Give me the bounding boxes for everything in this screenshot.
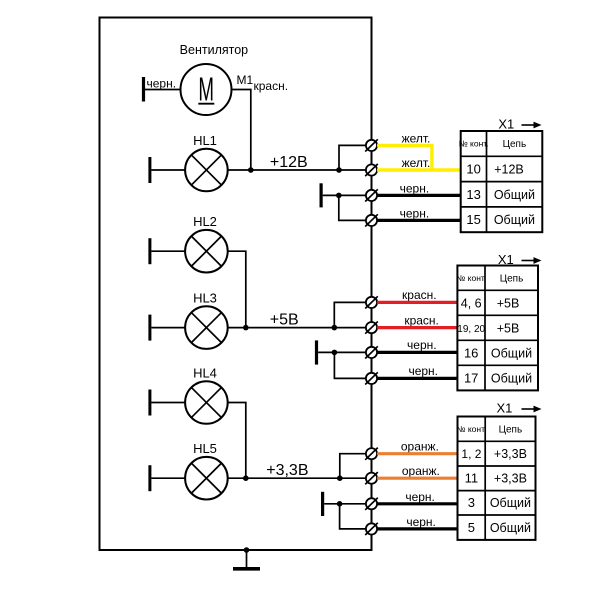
wire: HL3 left lead <box>151 327 185 329</box>
wire: ground stub <box>246 550 248 568</box>
lamp HL5 label <box>193 441 217 456</box>
svg-text:1, 2: 1, 2 <box>461 447 481 461</box>
svg-text:Цепь: Цепь <box>500 274 524 285</box>
wire: HL5 left lead <box>151 477 185 479</box>
wire: +5V branch up to pin <box>334 302 366 327</box>
wire label "красн." (to X1:19,20) <box>404 313 439 327</box>
connector X1 arrow (middle) <box>522 257 542 264</box>
wire: +3.3V branch up to pin <box>340 454 366 479</box>
junction: +5V branch <box>332 325 338 331</box>
svg-text:черн.: черн. <box>400 206 430 220</box>
red wire: pin to X1:19,20 <box>377 326 457 329</box>
svg-text:№ конт.: № конт. <box>459 139 489 149</box>
svg-text:черн.: черн. <box>147 77 177 91</box>
svg-text:+5В: +5В <box>270 312 299 329</box>
svg-text:Общий: Общий <box>491 346 532 360</box>
svg-text:оранж.: оранж. <box>401 440 439 454</box>
terminal bar HL3 <box>148 315 151 341</box>
connector X1 label (top) <box>498 116 514 131</box>
fan label "Вентилятор" <box>180 43 248 57</box>
terminal bar: top common lead <box>320 183 323 207</box>
connector pin circle (bottom group, to X1:1,2) <box>365 448 378 460</box>
connector X1 arrow (bottom) <box>522 406 542 413</box>
terminal bar: bottom common lead <box>321 492 324 516</box>
svg-text:3: 3 <box>468 495 475 510</box>
junction: HL2 lead to +5V net <box>243 325 249 331</box>
lamp HL1 label <box>193 133 217 148</box>
svg-text:HL3: HL3 <box>193 291 217 306</box>
wire label "черн." (to X1:15) <box>400 206 430 220</box>
svg-text:+5В: +5В <box>497 321 520 335</box>
svg-text:+12В: +12В <box>494 163 524 177</box>
wire label "желт." (lower) <box>402 156 431 170</box>
svg-text:желт.: желт. <box>402 131 431 145</box>
terminal bar HL4 <box>148 390 151 416</box>
red wire: pin to X1:4,6 <box>377 301 457 304</box>
black wire: pin to X1:15 <box>377 219 461 222</box>
svg-text:X1: X1 <box>497 400 513 415</box>
svg-text:16: 16 <box>464 345 478 360</box>
svg-text:11: 11 <box>465 471 479 486</box>
svg-text:Общий: Общий <box>494 213 535 227</box>
svg-text:+3,3В: +3,3В <box>494 472 527 486</box>
motor U "M1" (fan motor) <box>181 64 232 115</box>
svg-text:черн.: черн. <box>407 338 437 352</box>
orange wire: pin to X1:11 <box>377 477 457 480</box>
wire label "оранж." (to X1:11) <box>402 464 440 478</box>
connector pin circle (mid group, to X1:17) <box>365 372 378 384</box>
black wire: pin to X1:16 <box>377 351 457 354</box>
device boundary box <box>100 18 372 551</box>
junction: bottom common branch <box>337 501 343 507</box>
wire label "черн." (motor) <box>147 77 177 91</box>
wire label "красн." (motor) <box>254 79 289 93</box>
svg-text:10: 10 <box>466 162 480 177</box>
lamp HL3 label <box>193 291 217 306</box>
wire: middle common lead to pin <box>318 351 366 353</box>
connector pin circle (top group, pin to X1:10 lower) <box>365 164 378 176</box>
wire: HL4 left lead <box>151 402 185 404</box>
net label +5В <box>270 312 299 329</box>
svg-text:17: 17 <box>464 370 478 385</box>
connector pin circle (bottom group, to X1:11) <box>365 472 378 484</box>
terminal bar: motor black lead <box>142 77 145 102</box>
lamp HL4 label <box>193 366 217 381</box>
wire label "черн." (to X1:13) <box>400 181 430 195</box>
svg-text:+3,3В: +3,3В <box>494 447 527 461</box>
svg-text:черн.: черн. <box>406 515 436 529</box>
connector pin circle (top group, pin to X1:10 upper) <box>365 139 378 151</box>
wire label "черн." (to X1:17) <box>408 364 438 378</box>
connector pin circle (bottom group, to X1:3) <box>365 498 378 510</box>
wire label "оранж." (to X1:1,2) <box>401 440 439 454</box>
svg-text:HL1: HL1 <box>193 133 217 148</box>
wire label "красн." (to X1:4,6) <box>402 288 437 302</box>
svg-text:5: 5 <box>468 520 475 535</box>
svg-text:Вентилятор: Вентилятор <box>180 43 248 57</box>
junction: +3.3V branch <box>337 475 343 481</box>
black wire: pin to X1:3 <box>377 502 457 505</box>
svg-text:15: 15 <box>466 212 480 227</box>
svg-text:HL2: HL2 <box>193 214 217 229</box>
wire label "черн." (to X1:3) <box>405 490 435 504</box>
svg-text:Цепь: Цепь <box>503 139 527 150</box>
net label +12В <box>270 154 308 171</box>
connector X1 arrow (top) <box>522 122 542 129</box>
svg-text:желт.: желт. <box>402 156 431 170</box>
wire: +3.3V net HL5 to connector pin <box>228 477 366 479</box>
wire: motor right lead down to +12V net <box>232 90 251 171</box>
svg-text:Общий: Общий <box>490 496 531 510</box>
svg-text:черн.: черн. <box>400 181 430 195</box>
wire: bottom common branch down to pin <box>340 504 366 529</box>
ground <box>233 567 260 571</box>
svg-text:черн.: черн. <box>408 364 438 378</box>
terminal bar HL5 <box>148 465 151 491</box>
wire: bottom common lead to pin <box>324 503 366 505</box>
lamp HL2 label <box>193 214 217 229</box>
svg-text:19, 20: 19, 20 <box>457 324 485 335</box>
junction: HL4 lead to +3.3V net <box>243 475 249 481</box>
connector pin circle (top group, pin to X1:13) <box>365 189 378 201</box>
svg-text:Общий: Общий <box>494 188 535 202</box>
label M1 <box>237 73 254 87</box>
connector table X1 (bottom): pins 1,2 / 11 / 3 / 5 <box>456 417 535 540</box>
wire: HL1 left lead <box>151 169 185 171</box>
svg-text:черн.: черн. <box>405 490 435 504</box>
lamp HL3 <box>185 306 228 349</box>
wire label "черн." (to X1:16) <box>407 338 437 352</box>
svg-text:X1: X1 <box>498 116 514 131</box>
svg-text:4, 6: 4, 6 <box>461 296 482 310</box>
wire label "черн." (to X1:5) <box>406 515 436 529</box>
lamp HL5 <box>185 457 228 500</box>
svg-text:+3,3В: +3,3В <box>266 462 308 479</box>
orange wire: pin to X1:1,2 <box>377 452 457 455</box>
connector X1 label (bottom) <box>497 400 513 415</box>
junction: ground node on bottom edge <box>244 547 250 553</box>
connector X1 label (middle) <box>498 252 514 267</box>
wire: +12V net HL1 to connector pin <box>228 169 366 171</box>
svg-text:Цепь: Цепь <box>499 425 523 436</box>
svg-text:красн.: красн. <box>254 79 289 93</box>
wire: HL2 right lead down to +5V net <box>228 251 246 327</box>
connector pin circle (mid group, to X1:16) <box>365 346 378 358</box>
black wire: pin to X1:5 <box>377 527 457 530</box>
svg-text:№ конт.: № конт. <box>456 424 486 434</box>
junction: top common branch <box>336 193 342 199</box>
connector pin circle (mid group, to X1:19,20) <box>365 322 378 334</box>
lamp HL4 <box>185 381 228 424</box>
svg-text:HL4: HL4 <box>193 366 217 381</box>
junction: +12V branch <box>336 167 342 173</box>
wire: motor left lead <box>145 89 181 91</box>
terminal bar: middle common lead <box>315 340 318 364</box>
lamp HL2 <box>185 230 228 273</box>
wire: HL2 left lead <box>151 250 185 252</box>
wire: +12V branch up to pin 1 <box>339 145 366 170</box>
connector pin circle (bottom group, to X1:5) <box>365 523 378 535</box>
wire: top common branch down to pin <box>339 195 366 220</box>
black wire: pin to X1:17 <box>377 377 457 380</box>
connector pin circle (top group, pin to X1:15) <box>365 214 378 226</box>
svg-text:+12В: +12В <box>270 154 308 171</box>
svg-text:красн.: красн. <box>402 288 437 302</box>
svg-text:HL5: HL5 <box>193 441 217 456</box>
svg-text:№ конт.: № конт. <box>456 273 486 283</box>
yellow wire: pin to junction with lower yellow <box>377 145 432 170</box>
terminal bar HL2 <box>148 238 151 264</box>
svg-text:+5В: +5В <box>497 296 520 310</box>
wire: top common lead to pin <box>323 194 366 196</box>
junction: middle common branch <box>332 350 338 356</box>
connector pin circle (mid group, to X1:4,6) <box>365 296 378 308</box>
terminal bar HL1 <box>148 157 151 183</box>
svg-text:красн.: красн. <box>404 313 439 327</box>
wire: HL4 right lead down to +3.3V net <box>228 403 246 479</box>
svg-text:оранж.: оранж. <box>402 464 440 478</box>
wire label "желт." (upper) <box>402 131 431 145</box>
svg-text:М: М <box>198 70 214 108</box>
connector table X1 (top): pins 10,13,15 <box>459 131 543 232</box>
lamp HL1 <box>185 149 228 192</box>
yellow wire: pin to X1:10 <box>377 168 461 171</box>
wire: +5V net HL3 to connector pin <box>228 327 366 329</box>
svg-text:Общий: Общий <box>490 521 531 535</box>
black wire: pin to X1:13 <box>377 194 461 197</box>
svg-text:13: 13 <box>466 187 480 202</box>
wire: middle common branch down to pin <box>334 352 366 378</box>
svg-text:M1: M1 <box>237 73 254 87</box>
svg-text:Общий: Общий <box>491 371 532 385</box>
junction: motor lead to +12V net <box>248 167 254 173</box>
net label +3,3В <box>266 462 308 479</box>
connector table X1 (middle): pins 4,6 / 19,20 / 16 / 17 <box>456 266 538 391</box>
